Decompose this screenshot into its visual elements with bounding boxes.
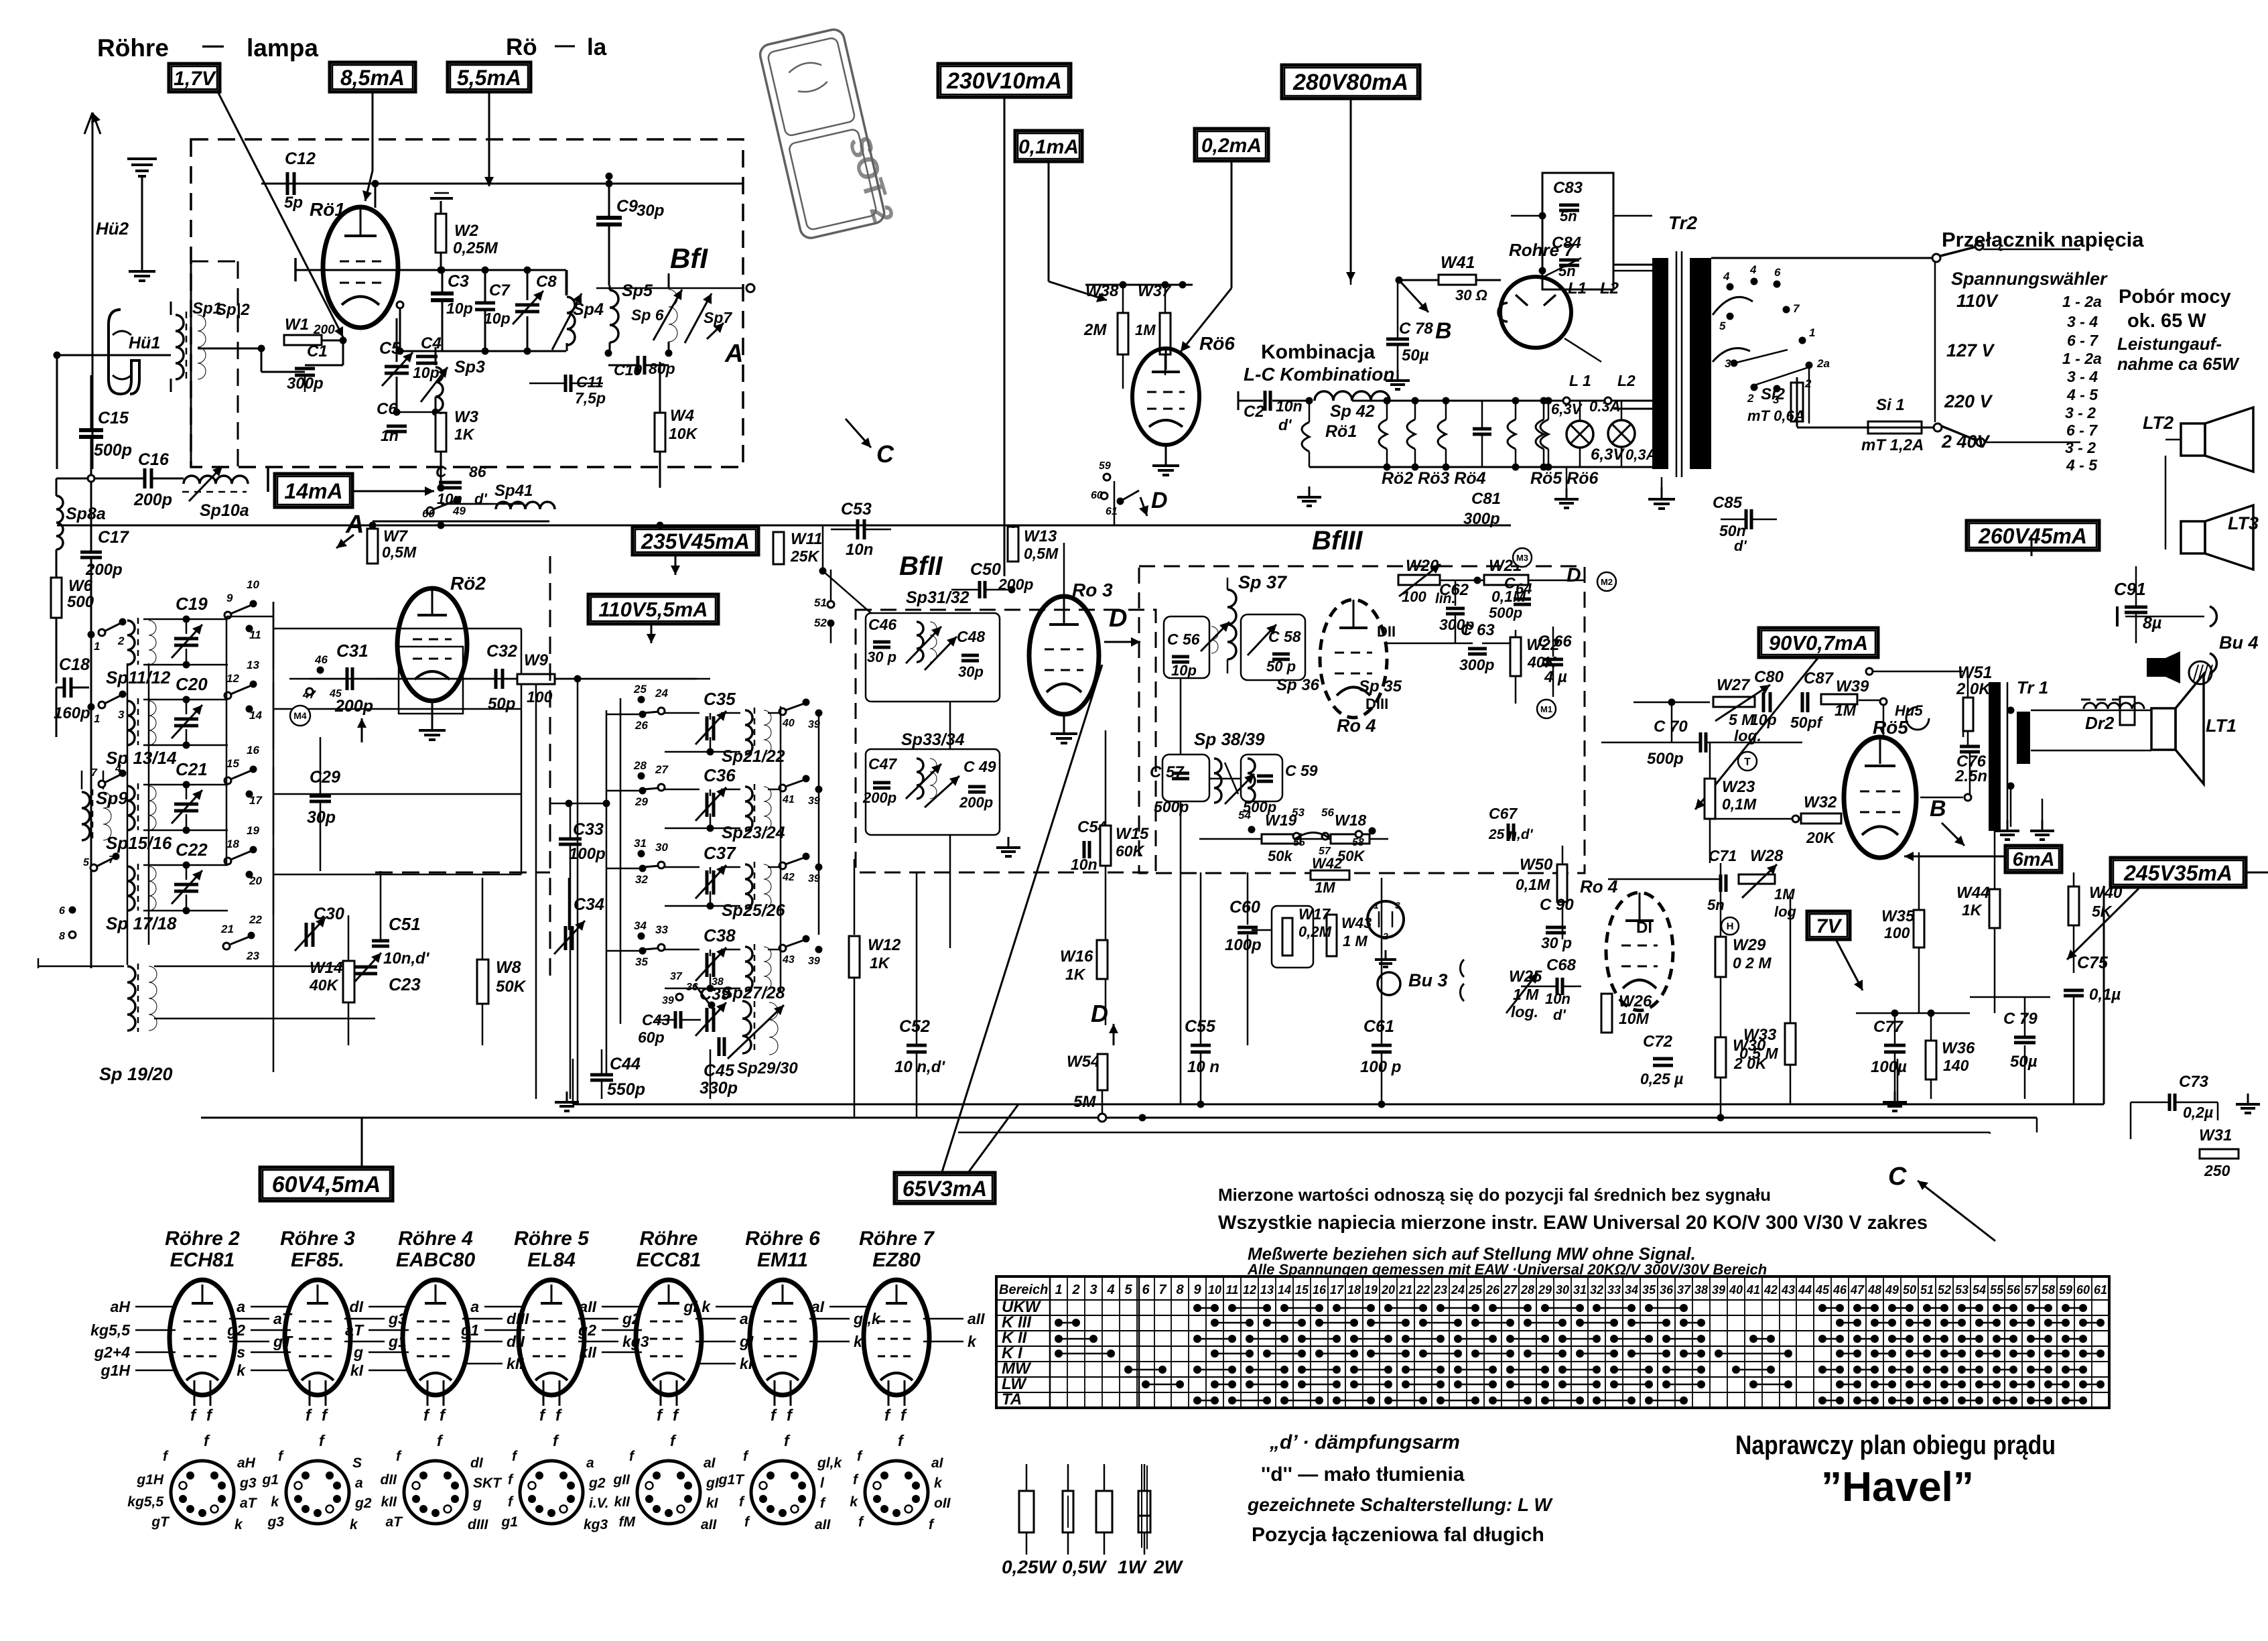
svg-text:33: 33 [1607,1283,1621,1297]
svg-text:10p: 10p [413,364,440,381]
svg-text:51: 51 [814,596,827,609]
svg-text:W41: W41 [1441,253,1475,272]
svg-text:Hü1: Hü1 [129,334,160,352]
svg-text:Sp|2: Sp|2 [216,301,250,319]
svg-text:M4: M4 [293,710,307,721]
svg-text:C12: C12 [285,149,316,168]
svg-text:4 µ: 4 µ [1544,668,1567,686]
svg-text:10: 10 [1208,1283,1221,1297]
svg-text:aT: aT [240,1496,258,1511]
svg-text:100 p: 100 p [1360,1058,1401,1076]
svg-text:38: 38 [712,976,724,988]
svg-text:50µ: 50µ [2010,1053,2038,1071]
svg-text:Bu 3: Bu 3 [1408,970,1448,990]
svg-text:g1H: g1H [101,1362,131,1379]
svg-text:Rö1: Rö1 [310,199,345,220]
svg-text:3 - 4: 3 - 4 [2067,313,2098,330]
svg-text:0,5M: 0,5M [1024,545,1059,562]
svg-text:23: 23 [1433,1283,1447,1297]
svg-text:M1: M1 [1540,704,1552,714]
svg-text:Ro 3: Ro 3 [1072,580,1113,600]
svg-text:LT1: LT1 [2206,716,2237,736]
svg-text:110V5,5mA: 110V5,5mA [598,598,708,621]
svg-text:C: C [1504,574,1516,592]
svg-text:59: 59 [1099,460,1111,472]
svg-text:1M: 1M [1774,886,1795,903]
svg-text:1 M: 1 M [1513,986,1539,1003]
svg-text:35: 35 [635,956,648,968]
svg-text:W25: W25 [1509,968,1542,986]
svg-text:C 66: C 66 [1538,633,1572,651]
svg-text:C81: C81 [1471,490,1501,508]
svg-text:200p: 200p [133,490,172,509]
svg-text:39: 39 [662,995,674,1006]
svg-text:DII: DII [1377,623,1396,640]
svg-text:L 1: L 1 [1569,372,1591,389]
svg-text:g1: g1 [501,1514,518,1530]
svg-text:7,5p: 7,5p [575,389,606,407]
svg-text:5M: 5M [1073,1093,1096,1111]
svg-text:C1: C1 [307,342,328,360]
svg-text:DI: DI [1636,919,1652,937]
svg-text:6 - 7: 6 - 7 [2067,332,2098,349]
svg-text:Röhre 6: Röhre 6 [745,1228,820,1250]
svg-text:aII: aII [815,1517,831,1532]
svg-text:Mierzone wartości odnoszą się: Mierzone wartości odnoszą się do pozycji… [1218,1185,1771,1205]
svg-text:2: 2 [1804,377,1812,390]
svg-text:„d’ · dämpfungsarm: „d’ · dämpfungsarm [1269,1431,1460,1453]
svg-text:60p: 60p [638,1029,665,1046]
svg-text:C19: C19 [176,594,208,614]
svg-text:C35: C35 [704,689,736,709]
svg-text:log.: log. [1511,1003,1538,1021]
svg-text:C 78: C 78 [1399,320,1433,338]
svg-text:k: k [968,1333,977,1350]
svg-text:2 40V: 2 40V [1941,432,1991,452]
svg-text:L-C Kombination: L-C Kombination [1244,364,1395,385]
svg-text:Sp 38/39: Sp 38/39 [1194,729,1265,749]
svg-text:oII: oII [934,1496,951,1511]
svg-text:5n: 5n [1560,208,1577,224]
svg-text:0,1M: 0,1M [1516,876,1550,893]
svg-text:60V4,5mA: 60V4,5mA [272,1172,381,1197]
svg-text:Tr2: Tr2 [1668,212,1697,233]
svg-text:g2: g2 [588,1475,606,1491]
svg-text:37: 37 [670,971,683,982]
svg-text:C33: C33 [573,820,604,839]
svg-text:EABC80: EABC80 [396,1249,476,1271]
svg-text:W2: W2 [454,222,479,240]
svg-text:W26: W26 [1619,992,1652,1010]
svg-text:3 - 2: 3 - 2 [2065,439,2096,456]
svg-text:0,1mA: 0,1mA [1018,136,1079,158]
svg-text:2a: 2a [1816,357,1830,370]
svg-text:18: 18 [1347,1283,1361,1297]
svg-text:2: 2 [1382,931,1388,941]
svg-text:86: 86 [469,463,486,480]
svg-text:5n: 5n [1707,897,1725,913]
svg-text:C61: C61 [1363,1017,1394,1036]
svg-text:C77: C77 [1873,1018,1904,1036]
svg-text:W44: W44 [1956,884,1989,902]
svg-text:23: 23 [246,949,259,962]
svg-text:7V: 7V [1816,915,1843,937]
svg-text:12: 12 [226,672,239,685]
svg-text:1: 1 [1055,1283,1062,1297]
svg-text:BfII: BfII [899,551,943,581]
svg-text:0,25W: 0,25W [1002,1557,1057,1577]
svg-text:ok. 65 W: ok. 65 W [2127,310,2206,332]
svg-text:dII: dII [507,1333,525,1350]
svg-text:49: 49 [1885,1283,1899,1297]
svg-text:Rö6: Rö6 [1199,333,1235,354]
svg-text:C 56: C 56 [1167,631,1200,648]
svg-text:56: 56 [1321,806,1334,819]
svg-text:13: 13 [1260,1283,1274,1297]
svg-text:61: 61 [2094,1283,2107,1297]
svg-text:dI: dI [470,1455,484,1471]
svg-text:W7: W7 [383,527,409,545]
svg-text:W27: W27 [1717,676,1751,694]
svg-text:1M: 1M [1135,322,1156,338]
svg-text:500p: 500p [1489,604,1522,621]
svg-text:1 - 2a: 1 - 2a [2062,293,2102,310]
svg-text:47: 47 [1850,1283,1865,1297]
svg-text:aI: aI [704,1455,716,1471]
svg-text:Leistungauf-: Leistungauf- [2117,334,2222,354]
svg-text:S: S [352,1455,362,1471]
svg-text:61: 61 [1106,506,1118,517]
svg-text:C22: C22 [176,840,208,860]
svg-text:6: 6 [59,905,65,917]
svg-text:10M: 10M [1619,1010,1650,1027]
svg-text:C60: C60 [1229,898,1260,917]
svg-text:550p: 550p [607,1080,645,1099]
svg-text:Rö: Rö [506,34,537,60]
svg-text:41: 41 [1746,1283,1760,1297]
svg-text:24: 24 [1451,1283,1465,1297]
svg-text:C87: C87 [1804,669,1835,687]
svg-text:40: 40 [782,718,795,729]
svg-text:1,7V: 1,7V [174,68,217,90]
svg-text:14: 14 [1278,1283,1291,1297]
svg-text:W9: W9 [524,651,549,669]
svg-text:Spannungswähler: Spannungswähler [1951,269,2108,289]
svg-text:gezeichnete Schalterstellung:: gezeichnete Schalterstellung: L W [1247,1494,1553,1515]
svg-text:W4: W4 [670,407,694,425]
svg-text:dI: dI [350,1298,364,1315]
svg-text:16: 16 [247,744,259,757]
svg-text:10K: 10K [669,425,698,442]
svg-text:EM11: EM11 [757,1249,808,1271]
svg-text:Kombinacja: Kombinacja [1261,341,1375,363]
svg-text:g: g [353,1343,363,1361]
svg-text:10n: 10n [1071,856,1097,873]
svg-text:6: 6 [1774,266,1781,279]
svg-text:280V80mA: 280V80mA [1292,70,1408,95]
svg-text:W15: W15 [1116,825,1149,843]
svg-text:6 - 7: 6 - 7 [2066,421,2098,439]
svg-text:d': d' [1553,1006,1566,1023]
svg-text:C38: C38 [704,925,736,945]
svg-text:Si 1: Si 1 [1876,396,1905,414]
svg-text:B: B [1930,796,1946,822]
svg-text:Hü2: Hü2 [96,218,129,239]
svg-text:a: a [355,1475,363,1491]
svg-text:58: 58 [2042,1283,2055,1297]
svg-text:25: 25 [1468,1283,1483,1297]
svg-text:Röhre 7: Röhre 7 [859,1228,935,1250]
svg-text:100p: 100p [1225,936,1262,954]
svg-text:12: 12 [1243,1283,1256,1297]
svg-text:200p: 200p [959,794,993,811]
svg-text:Röhre: Röhre [640,1228,698,1250]
svg-text:k: k [237,1362,246,1379]
svg-text:9: 9 [1193,1283,1201,1297]
svg-text:8: 8 [1176,1283,1184,1297]
svg-text:Sp9: Sp9 [96,788,128,808]
svg-text:kg3: kg3 [584,1517,608,1532]
svg-text:g2: g2 [226,1321,245,1339]
svg-text:0,5M: 0,5M [382,543,417,561]
svg-text:W51: W51 [1958,663,1992,682]
svg-text:C23: C23 [389,974,421,994]
svg-text:30p: 30p [307,808,336,827]
svg-text:1 - 2a: 1 - 2a [2062,350,2102,367]
svg-text:38: 38 [1694,1283,1708,1297]
svg-text:5n: 5n [1558,263,1576,279]
svg-text:Sp 42: Sp 42 [1330,402,1375,421]
svg-text:C21: C21 [176,759,208,779]
svg-text:gII: gII [613,1472,631,1488]
svg-text:6,3V: 6,3V [1591,446,1625,464]
svg-text:kII: kII [381,1494,398,1510]
svg-text:35: 35 [1642,1283,1656,1297]
svg-text:1M: 1M [1835,702,1857,719]
svg-text:0,5W: 0,5W [1062,1557,1108,1577]
svg-text:C52: C52 [899,1017,930,1036]
svg-text:500p: 500p [1154,798,1189,815]
svg-text:gI: gI [706,1475,720,1491]
svg-text:C83: C83 [1553,179,1583,197]
svg-text:Tr 1: Tr 1 [2017,677,2048,698]
svg-text:10p: 10p [1171,662,1197,679]
svg-text:C29: C29 [310,768,340,787]
svg-text:W16: W16 [1060,947,1093,966]
svg-text:dII: dII [381,1472,398,1488]
svg-text:28: 28 [633,759,647,772]
svg-text:3: 3 [1725,357,1731,370]
svg-text:g2+4: g2+4 [94,1343,130,1361]
svg-text:48: 48 [1867,1283,1881,1297]
svg-text:11: 11 [249,629,261,641]
svg-text:100: 100 [1884,924,1910,941]
svg-text:25K: 25K [790,547,820,565]
svg-text:30p: 30p [637,202,664,220]
svg-text:D: D [1091,1000,1108,1027]
svg-text:10n,d': 10n,d' [383,949,430,968]
svg-text:50 p: 50 p [1266,658,1296,675]
svg-text:TA: TA [1002,1390,1022,1408]
svg-text:la: la [587,34,607,60]
svg-text:k: k [850,1494,858,1510]
svg-text:100p: 100p [569,845,606,863]
svg-text:aI: aI [811,1298,825,1315]
svg-text:C36: C36 [704,765,736,785]
svg-text:1K: 1K [870,954,890,972]
svg-text:nahme ca 65W: nahme ca 65W [2117,354,2240,374]
svg-text:C32: C32 [486,642,517,661]
svg-text:a: a [470,1298,479,1315]
svg-text:W42: W42 [1312,855,1343,872]
svg-text:46: 46 [314,653,328,666]
svg-text:0,2mA: 0,2mA [1201,135,1262,157]
svg-text:EL84: EL84 [527,1249,576,1271]
svg-text:C8: C8 [536,273,557,291]
svg-text:4 - 5: 4 - 5 [2066,386,2098,403]
svg-text:M3: M3 [1516,553,1528,563]
svg-text:100µ: 100µ [1871,1058,1907,1076]
svg-text:2: 2 [1747,392,1754,405]
svg-text:19: 19 [247,824,259,837]
svg-text:10p: 10p [446,300,473,317]
svg-text:g2: g2 [354,1496,372,1511]
svg-text:C 63: C 63 [1461,621,1495,639]
svg-text:C47: C47 [868,755,897,773]
svg-text:0,1µ: 0,1µ [2089,986,2121,1004]
svg-text:Sp41: Sp41 [494,482,533,500]
svg-text:1K: 1K [1065,966,1086,983]
svg-text:30: 30 [1556,1283,1569,1297]
svg-text:mT 0,6A: mT 0,6A [1747,407,1805,424]
svg-text:C84: C84 [1552,234,1581,252]
svg-text:W23: W23 [1722,778,1755,796]
svg-text:C 59: C 59 [1285,762,1318,779]
svg-text:k: k [934,1475,943,1491]
svg-text:30 Ω: 30 Ω [1455,287,1487,304]
svg-text:4: 4 [1749,263,1757,276]
svg-text:aII: aII [701,1517,718,1532]
svg-text:g1T: g1T [718,1472,746,1488]
svg-text:8: 8 [59,931,65,942]
svg-text:kII: kII [579,1343,596,1361]
svg-text:54: 54 [1973,1283,1986,1297]
svg-text:a: a [586,1455,594,1471]
svg-text:Ro 4: Ro 4 [1580,876,1618,897]
svg-text:40: 40 [1729,1283,1743,1297]
svg-text:Röhre 2: Röhre 2 [165,1228,240,1250]
svg-text:BfIII: BfIII [1312,526,1363,555]
svg-text:55: 55 [1990,1283,2004,1297]
svg-text:W29: W29 [1733,936,1766,954]
svg-text:65V3mA: 65V3mA [903,1177,987,1201]
svg-text:37: 37 [1677,1283,1691,1297]
svg-text:k: k [271,1494,279,1510]
svg-text:43: 43 [1781,1283,1795,1297]
svg-text:C5: C5 [379,339,401,358]
svg-text:kII: kII [614,1494,631,1510]
svg-text:43: 43 [782,954,795,966]
svg-text:EZ80: EZ80 [872,1249,921,1271]
svg-text:aT: aT [345,1321,364,1339]
svg-text:16: 16 [1313,1283,1327,1297]
svg-text:0 2 M: 0 2 M [1733,954,1772,972]
svg-text:ECC81: ECC81 [637,1249,702,1271]
svg-text:C: C [876,440,894,468]
svg-text:60: 60 [2076,1283,2090,1297]
svg-text:24: 24 [655,687,668,700]
svg-text:g1H: g1H [136,1472,164,1488]
svg-text:Sp3: Sp3 [454,358,485,377]
svg-text:1: 1 [94,640,100,653]
svg-text:Bereich: Bereich [999,1283,1048,1297]
svg-text:30: 30 [655,841,668,854]
svg-text:Sp 17/18: Sp 17/18 [106,913,177,933]
svg-text:C4: C4 [421,334,442,352]
svg-text:Sp23/24: Sp23/24 [722,824,785,842]
svg-text:W31: W31 [2199,1126,2232,1144]
svg-text:Naprawczy plan obiegu prądu: Naprawczy plan obiegu prądu [1735,1431,2056,1460]
svg-text:W8: W8 [496,958,521,977]
svg-text:2M: 2M [1083,321,1107,339]
svg-text:H: H [1727,921,1734,932]
svg-text:''d'' — mało tłumienia: ''d'' — mało tłumienia [1261,1463,1465,1486]
svg-text:58: 58 [1352,837,1364,848]
svg-text:3 - 4: 3 - 4 [2067,368,2098,385]
svg-text:W6: W6 [68,577,93,595]
svg-text:36: 36 [686,982,698,993]
svg-text:C16: C16 [138,450,170,469]
svg-text:1: 1 [94,712,100,725]
svg-text:kI: kI [350,1362,364,1379]
svg-text:50k: 50k [1268,848,1293,864]
svg-text:0,2µ: 0,2µ [2183,1104,2213,1121]
svg-text:55: 55 [1293,837,1306,848]
svg-text:Sp 6: Sp 6 [631,306,664,324]
svg-text:C72: C72 [1643,1033,1673,1051]
svg-text:3: 3 [1089,1283,1097,1297]
svg-text:C91: C91 [2114,579,2146,599]
svg-text:53: 53 [1292,806,1305,819]
svg-text:53: 53 [1955,1283,1969,1297]
svg-text:22: 22 [1416,1283,1430,1297]
svg-text:30 p: 30 p [867,649,896,665]
svg-text:21: 21 [1398,1283,1412,1297]
svg-text:W40: W40 [2089,884,2123,902]
svg-text:34: 34 [634,919,647,932]
svg-text:D: D [1109,604,1127,633]
svg-text:60K: 60K [1116,842,1145,860]
svg-text:k: k [350,1517,358,1532]
svg-text:42: 42 [1763,1283,1778,1297]
svg-text:W43: W43 [1341,915,1372,931]
svg-text:g: g [472,1496,482,1511]
svg-text:LT2: LT2 [2143,413,2174,433]
svg-text:Bu 4: Bu 4 [2219,633,2259,653]
svg-text:46: 46 [1832,1283,1847,1297]
svg-text:4: 4 [1723,270,1730,283]
svg-text:36: 36 [1660,1283,1674,1297]
svg-text:39: 39 [1712,1283,1725,1297]
svg-text:A: A [724,340,743,368]
svg-text:B: B [1435,318,1452,344]
svg-text:5: 5 [1124,1283,1132,1297]
svg-text:Sp4: Sp4 [573,300,604,319]
svg-text:235V45mA: 235V45mA [641,529,750,553]
svg-text:C 79: C 79 [2003,1010,2038,1028]
svg-text:2 0K: 2 0K [1956,680,1991,698]
svg-text:52: 52 [1938,1283,1951,1297]
